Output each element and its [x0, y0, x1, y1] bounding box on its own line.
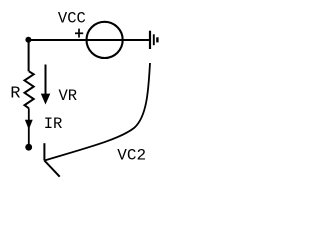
- ground (right, rotated bars): [150, 31, 157, 49]
- wire left vertical: [28, 40, 30, 71]
- voltage arrow VR head: [41, 94, 51, 105]
- svg-text:VCC: VCC: [58, 9, 86, 27]
- resistor R zigzag: [25, 71, 34, 108]
- svg-text:R: R: [10, 85, 20, 104]
- curved annotation VC2 arc: [44, 63, 150, 161]
- svg-text:VC2: VC2: [117, 147, 146, 165]
- VC2 arrow barb diagonal: [44, 161, 59, 177]
- wire top horizontal: [29, 39, 150, 41]
- VC2 arrow barb vertical: [43, 143, 45, 160]
- svg-text:VR: VR: [59, 87, 78, 105]
- plus polarity mark: [75, 29, 83, 38]
- voltage arrow VR (line): [45, 65, 47, 97]
- node junction dot top-left: [25, 37, 31, 43]
- svg-text:IR: IR: [44, 115, 63, 133]
- current arrow IR head (on wire): [25, 120, 33, 130]
- node dot bottom of branch: [25, 144, 32, 151]
- wire below resistor: [28, 108, 30, 145]
- voltage source V1 circle: [87, 22, 123, 58]
